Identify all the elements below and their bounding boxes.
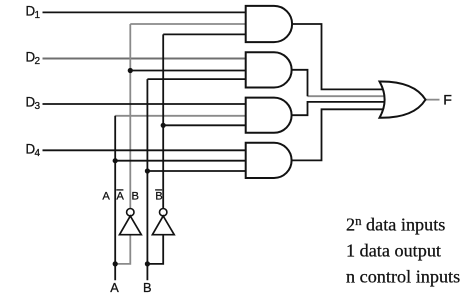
svg-text:A: A bbox=[102, 190, 110, 202]
inverter NOT-B bubble bbox=[160, 209, 167, 216]
svg-text:4: 4 bbox=[35, 148, 41, 159]
wire AND4 output to OR input 4 bbox=[292, 109, 384, 160]
node junction Bbar to AND3 bbox=[161, 123, 166, 128]
svg-text:n control inputs: n control inputs bbox=[346, 267, 460, 287]
wire NOT-A input jog (gray) bbox=[115, 235, 130, 264]
label D4 bbox=[26, 142, 41, 160]
inverter NOT-A triangle bbox=[120, 216, 142, 235]
label Bbar (control row) bbox=[155, 190, 163, 202]
wire Bbar vertical control line bbox=[162, 34, 164, 208]
node junction A to NOT-A bbox=[113, 261, 118, 266]
wire AND2 output into OR (gray) bbox=[308, 95, 386, 97]
node junction B to AND4 bbox=[145, 168, 150, 173]
label Abar (control row) bbox=[116, 190, 124, 202]
node junction A to AND4 bbox=[113, 158, 118, 163]
and-gate AND2 bbox=[246, 52, 292, 87]
wire AND2 output down-jog bbox=[292, 70, 308, 96]
wire A to AND3 middle input (gray) bbox=[115, 115, 246, 117]
label D1 bbox=[26, 4, 41, 22]
inverter NOT-B triangle bbox=[152, 216, 174, 235]
svg-text:1: 1 bbox=[35, 10, 41, 21]
and-gate AND3 bbox=[246, 98, 292, 133]
wire Abar vertical control line (gray) bbox=[129, 24, 131, 209]
svg-text:2n data inputs: 2n data inputs bbox=[346, 214, 445, 235]
wire D1 input line bbox=[43, 11, 246, 13]
node junction Abar to AND2 bbox=[128, 68, 133, 73]
inverter NOT-A bubble bbox=[127, 209, 134, 216]
svg-text:2: 2 bbox=[35, 56, 41, 67]
svg-text:A: A bbox=[116, 190, 124, 202]
wire D4 input line bbox=[43, 149, 246, 151]
svg-text:B: B bbox=[143, 280, 152, 295]
and-gate AND1 bbox=[246, 6, 292, 42]
wire Abar to AND1 middle input (gray) bbox=[130, 23, 245, 25]
label D3 bbox=[26, 95, 41, 113]
wire D2 input line (gray) bbox=[43, 58, 246, 60]
svg-text:F: F bbox=[443, 93, 452, 109]
wire Bbar to AND1 bottom input bbox=[163, 33, 246, 35]
svg-text:3: 3 bbox=[35, 101, 41, 112]
wire D3 input line bbox=[43, 103, 246, 105]
svg-text:1 data output: 1 data output bbox=[346, 241, 441, 261]
node junction B to NOT-B bbox=[145, 261, 150, 266]
and-gate AND4 bbox=[246, 143, 292, 178]
wire B vertical control line bbox=[146, 79, 148, 280]
svg-text:B: B bbox=[155, 190, 162, 202]
wire AND3 output to OR input 3 bbox=[291, 102, 385, 115]
wire OR output to F (gray) bbox=[426, 99, 440, 101]
wire Abar to AND2 middle input bbox=[130, 70, 245, 72]
wire Bbar to AND3 bottom input bbox=[163, 124, 246, 126]
note text block bbox=[346, 214, 460, 287]
wire NOT-B input jog bbox=[147, 235, 163, 264]
wire AND1 output to OR input 1 bbox=[292, 24, 383, 89]
wire B to AND2 bottom input bbox=[147, 78, 245, 80]
or-gate OR1 bbox=[380, 81, 426, 117]
svg-text:A: A bbox=[110, 280, 119, 295]
svg-text:B: B bbox=[132, 190, 139, 202]
wire B to AND4 bottom input bbox=[147, 170, 245, 172]
label D2 bbox=[26, 49, 41, 67]
wire A vertical control line bbox=[114, 116, 116, 280]
wire A to AND4 middle input bbox=[115, 160, 246, 162]
